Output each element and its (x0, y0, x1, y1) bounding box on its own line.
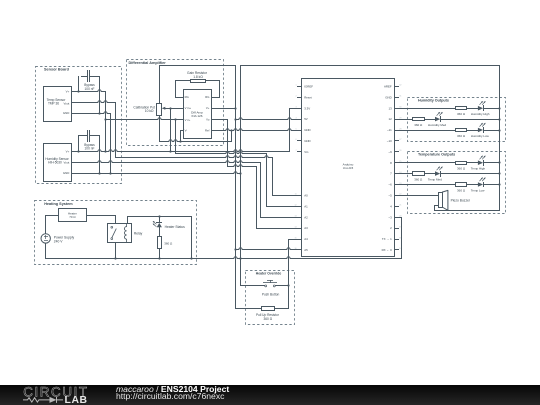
wire INA V+ pin to rail (211, 108, 236, 110)
svg-text:RG: RG (205, 95, 209, 99)
svg-text:360 Ω: 360 Ω (457, 189, 466, 193)
resistor R10 Pull Up Resistor 360 (262, 307, 275, 311)
svg-text:Humidity Outputs: Humidity Outputs (418, 98, 449, 102)
wire vertical rail A (pot-top / 5V / A5) (235, 65, 237, 309)
svg-text:IOREF: IOREF (304, 85, 313, 89)
svg-text:RX ← 0: RX ← 0 (382, 248, 393, 252)
svg-text:AREF: AREF (384, 85, 392, 89)
wire temp V+ net (71, 90, 106, 92)
wire temp GND net (71, 112, 111, 114)
wire humidity GND (h6) (71, 172, 241, 174)
svg-text:100 nF: 100 nF (85, 147, 95, 151)
relay K1 body (108, 224, 132, 243)
wire digital pin to Temp Med branch (398, 173, 413, 175)
svg-text:GND: GND (304, 128, 310, 132)
resistor R7 360 (413, 172, 425, 176)
svg-text:GND: GND (385, 95, 391, 99)
Arduino left pin stubs and labels (297, 86, 302, 88)
svg-text:240 V: 240 V (54, 239, 63, 243)
wire A5 connection (235, 248, 298, 250)
wire pot wiper branch (169, 107, 171, 109)
svg-text:4: 4 (296, 117, 297, 119)
footer title text (116, 385, 229, 400)
LED Temp Low (478, 182, 483, 187)
svg-text:~5: ~5 (388, 194, 392, 198)
resistor R5 360 (456, 129, 467, 132)
wire vertical rail B (common return) (240, 65, 242, 286)
svg-text:INA 126: INA 126 (191, 114, 202, 118)
module box Humidity Outputs (408, 98, 506, 142)
svg-text:2: 2 (296, 96, 297, 98)
svg-text:5V: 5V (304, 117, 308, 121)
svg-text:A4: A4 (304, 237, 308, 241)
svg-text:~9: ~9 (388, 150, 392, 154)
svg-text:A0: A0 (304, 194, 308, 198)
wire relay NO contact to return (115, 242, 117, 259)
svg-text:Humidity Med: Humidity Med (428, 123, 447, 127)
wire LED common vertical bus (499, 65, 501, 211)
svg-text:360 Ω: 360 Ω (457, 134, 466, 138)
wire button left lead (240, 285, 265, 287)
svg-text:360 Ω: 360 Ω (457, 112, 466, 116)
svg-text:Push Button: Push Button (262, 292, 280, 296)
svg-text:Heater Status: Heater Status (165, 225, 186, 229)
module box Sensor Board (36, 67, 122, 184)
resistor R8 360 (456, 183, 467, 187)
svg-text:GND: GND (63, 171, 69, 175)
wire R9 to return (159, 248, 161, 259)
svg-text:V+: V+ (206, 106, 210, 110)
svg-text:V+: V+ (66, 90, 70, 94)
wire C2 left lead to humidity V+ (78, 135, 80, 152)
wire INA Vo output (211, 119, 228, 121)
svg-text:A1: A1 (304, 204, 308, 208)
bypass capacitor C1 100nF (87, 70, 89, 82)
wire INA Ref / Arduino GND (211, 129, 298, 131)
resistor R4 360 (413, 118, 425, 121)
svg-text:~3: ~3 (388, 215, 392, 219)
wire A4 to push button (288, 239, 298, 241)
svg-text:1: 1 (296, 85, 297, 87)
svg-text:V+: V+ (66, 149, 70, 153)
svg-text:360 Ω: 360 Ω (414, 178, 423, 182)
svg-text:V in+: V in+ (185, 106, 192, 110)
svg-text:HIH-5030: HIH-5030 (48, 161, 62, 165)
wire Vo to A3 (h5) (227, 165, 257, 167)
wire buzzer return (434, 205, 439, 207)
push button SW1 (265, 285, 267, 287)
svg-text:A5: A5 (304, 248, 308, 252)
svg-text:360 Ω: 360 Ω (264, 317, 273, 321)
wire INA V- pin (180, 130, 184, 132)
wire temp Vout net (71, 101, 116, 103)
svg-text:Ref: Ref (205, 128, 210, 132)
potentiometer R2 Calibration Pot 10k (157, 104, 162, 116)
svg-text:A2: A2 (304, 215, 308, 219)
svg-text:Heating System: Heating System (44, 202, 73, 206)
wire pull-up right lead (274, 308, 289, 310)
wire digital pin to Humidity Low branch (398, 130, 456, 132)
svg-text:360 Ω: 360 Ω (457, 167, 466, 171)
wire supply+ to heater to relay (45, 215, 47, 234)
temp sensor U1 TMP36 body (44, 87, 72, 122)
svg-text:Heater Override: Heater Override (256, 272, 282, 276)
bypass capacitor C2 100nF (87, 130, 89, 142)
svg-text:3.3V: 3.3V (304, 106, 310, 110)
op-amp U3 INA126 body (184, 90, 212, 139)
svg-text:12: 12 (388, 117, 392, 121)
module box Temperature Outputs (408, 152, 506, 214)
svg-text:GND: GND (63, 111, 69, 115)
svg-text:13: 13 (388, 106, 392, 110)
svg-text:3: 3 (296, 107, 297, 109)
svg-text:Piezo Buzzer: Piezo Buzzer (451, 199, 471, 203)
resistor R6 360 (456, 162, 467, 165)
wire button right lead (275, 285, 289, 287)
wire LED to R9 (159, 227, 161, 237)
svg-text:~11: ~11 (387, 128, 392, 132)
module box Heating System (35, 201, 197, 265)
microcontroller U4 Arduino Uno R3 body (302, 79, 395, 257)
wire relay coil to LED rail (127, 216, 129, 224)
svg-text:32: 32 (399, 85, 401, 87)
svg-text:7: 7 (296, 150, 297, 152)
svg-text:13: 13 (294, 216, 296, 218)
svg-text:Vin: Vin (304, 150, 309, 154)
LED Temp Med (435, 171, 440, 176)
svg-text:Differential Amplifier: Differential Amplifier (129, 61, 167, 65)
svg-text:Humidity High: Humidity High (471, 112, 490, 116)
wire digital pin to Humidity Med branch (398, 119, 413, 121)
svg-text:Vout: Vout (64, 102, 70, 106)
svg-text:TX → 1: TX → 1 (382, 237, 392, 241)
svg-text:Relay: Relay (134, 232, 143, 236)
wire C1 left lead to temp V+ (78, 76, 80, 92)
svg-text:21: 21 (399, 205, 401, 207)
wire gain resistor loop (175, 97, 184, 99)
wire pot bottom lead / ref rail (159, 115, 161, 142)
svg-text:1.8 kΩ: 1.8 kΩ (193, 75, 203, 79)
LED D7 Heater Status (159, 216, 161, 223)
wire supply- return rail (45, 243, 47, 259)
wire 3.3V rail to humidity V+ (h1) (71, 150, 290, 152)
wire C2 right lead to humidity GND (99, 135, 101, 174)
svg-text:14: 14 (294, 226, 296, 228)
module box Differential Amplifier (127, 60, 224, 146)
humidity sensor U2 HIH-5030 body (44, 144, 72, 182)
svg-text:27: 27 (399, 139, 401, 141)
wire return rail up to pin ~3 (401, 217, 403, 259)
svg-text:31: 31 (399, 96, 401, 98)
LED Humidity High (478, 106, 483, 111)
svg-text:6: 6 (296, 139, 297, 141)
svg-text:Uno R3: Uno R3 (343, 166, 354, 170)
svg-text:10 kΩ: 10 kΩ (145, 109, 154, 113)
power supply V1 240V (41, 234, 50, 243)
wire pot top lead to 5V rail (159, 65, 161, 104)
svg-text:70 Ω: 70 Ω (69, 215, 76, 219)
LED Temp High (478, 160, 483, 165)
resistor R3 360 (456, 107, 467, 110)
heater load box (59, 209, 87, 222)
svg-text:16: 16 (294, 248, 296, 250)
LED Humidity Med (435, 117, 440, 122)
svg-text:12: 12 (294, 205, 296, 207)
LED Humidity Low (478, 128, 483, 133)
svg-text:Sensor Board: Sensor Board (44, 68, 70, 72)
svg-text:~10: ~10 (387, 139, 392, 143)
resistor R1 Gain Resistor 1.8k (191, 80, 206, 83)
wire 5V rail to Arduino 5V (235, 118, 298, 120)
svg-text:5: 5 (296, 128, 297, 130)
wire amp to A1 (h2) (175, 152, 267, 154)
svg-text:RG: RG (185, 95, 189, 99)
svg-text:100 nF: 100 nF (85, 87, 95, 91)
wire INA V in- input (105, 118, 184, 120)
Arduino right pin stubs and labels (394, 86, 399, 88)
svg-text:Vout: Vout (64, 160, 70, 164)
svg-text:Temp Low: Temp Low (471, 189, 486, 193)
wire pull-up left lead (235, 308, 262, 310)
svg-text:Reset: Reset (304, 95, 312, 99)
wire C1 right lead to temp GND (99, 76, 101, 114)
svg-text:Vo: Vo (206, 118, 210, 122)
svg-text:11: 11 (295, 194, 297, 196)
svg-text:Temp High: Temp High (471, 167, 486, 171)
svg-text:TMP 36: TMP 36 (48, 102, 59, 106)
svg-text:A3: A3 (304, 226, 308, 230)
svg-text:15: 15 (294, 237, 296, 239)
wire humidity Vout to A2 (h4) (71, 161, 261, 163)
resistor R9 360 (158, 237, 162, 249)
svg-text:~6: ~6 (388, 183, 392, 187)
svg-text:Humidity Low: Humidity Low (471, 134, 490, 138)
wire digital pin to Temp High branch (398, 162, 456, 164)
svg-text:Temperature Outputs: Temperature Outputs (418, 152, 455, 156)
svg-text:26: 26 (399, 150, 401, 152)
wire temp Vout to A0 (h3) (115, 156, 273, 158)
svg-text:Temp Med: Temp Med (428, 178, 442, 182)
module box Heater Override (246, 271, 295, 325)
wire digital pin to Temp Low branch (398, 184, 456, 186)
svg-text:360 Ω: 360 Ω (164, 242, 173, 246)
svg-text:V in-: V in- (185, 118, 191, 122)
svg-text:LAB: LAB (65, 395, 88, 405)
svg-text:V-: V- (185, 128, 188, 132)
svg-text:360 Ω: 360 Ω (414, 123, 423, 127)
CircuitLab logo (21, 386, 131, 405)
piezo buzzer SP1 (398, 195, 439, 197)
wire digital pin to Humidity High branch (398, 108, 456, 110)
svg-text:GND: GND (304, 139, 310, 143)
